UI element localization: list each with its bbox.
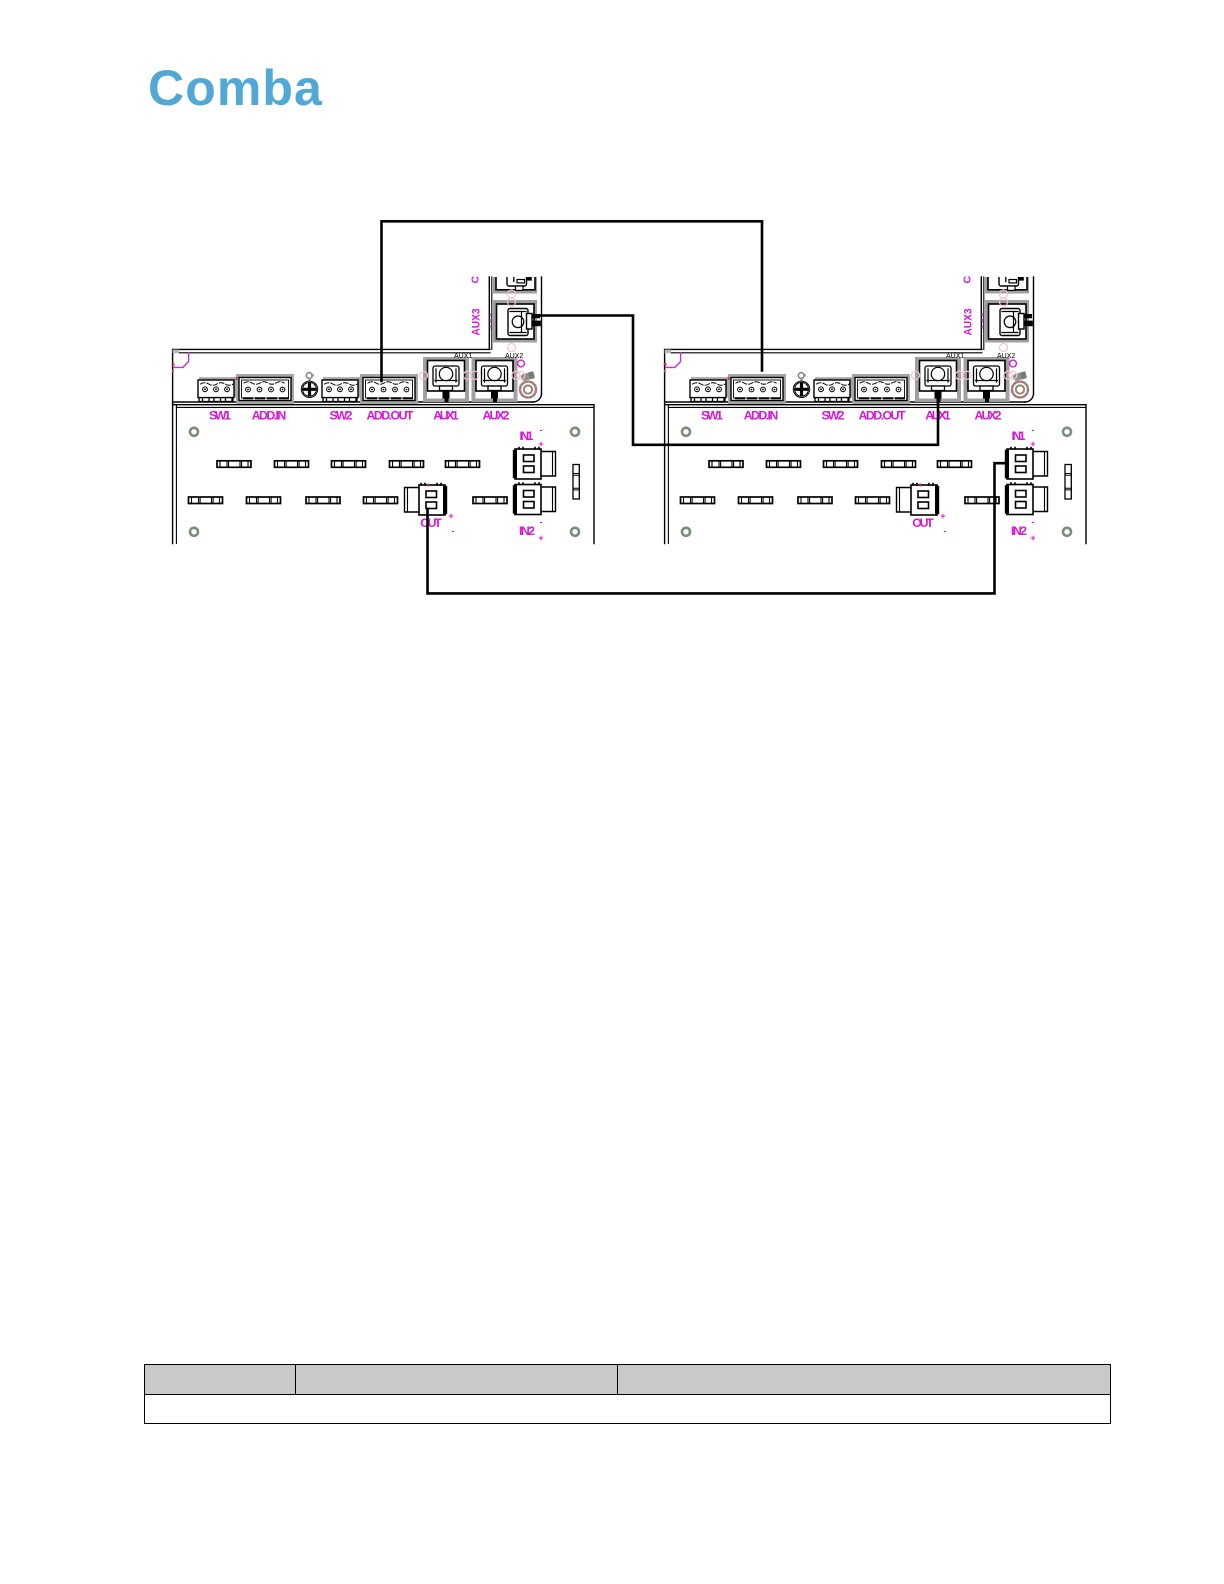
svg-text:AUX2: AUX2	[997, 353, 1015, 360]
svg-text:C: C	[470, 276, 482, 284]
lower panel outline	[665, 405, 1086, 544]
svg-text:ADD.IN: ADD.IN	[744, 409, 779, 423]
svg-text:AUX1: AUX1	[454, 353, 472, 360]
terminal ADD.OUT	[852, 374, 910, 404]
svg-text:ADD.IN: ADD.IN	[252, 409, 287, 423]
ground stud	[1012, 371, 1028, 397]
red tick	[728, 377, 730, 380]
svg-text:AUX2: AUX2	[505, 353, 523, 360]
svg-text:AUX3: AUX3	[471, 309, 483, 336]
svg-text:-: -	[944, 526, 947, 536]
red tick OUT	[920, 484, 922, 487]
fiber IN2	[1005, 483, 1048, 515]
svg-text:AUX2: AUX2	[483, 409, 510, 423]
svg-text:C: C	[962, 276, 974, 284]
svg-text:-: -	[452, 526, 455, 536]
jack AUX2	[472, 357, 518, 403]
red corner dot	[172, 363, 175, 366]
terminal SW1	[690, 377, 729, 401]
red tick	[236, 377, 238, 380]
wire ADD.OUT(L) to ADD.IN(R)	[382, 221, 763, 381]
Comba logo	[148, 59, 323, 117]
vent slots row1	[217, 461, 251, 468]
rotated AUX3 sub-panel edges	[489, 277, 541, 394]
red corner dot	[664, 363, 667, 366]
terminal SW1	[198, 377, 237, 401]
pink circles beside jacks	[912, 371, 920, 379]
vent slots row2	[681, 497, 715, 504]
svg-text:+: +	[940, 511, 945, 521]
vent slots row1	[709, 461, 743, 468]
vent slots row2	[189, 497, 223, 504]
green holes	[682, 428, 690, 436]
panel top-strip outline	[173, 349, 542, 543]
svg-text:SW1: SW1	[209, 409, 231, 423]
magenta circle	[1010, 360, 1017, 367]
bottom table	[144, 1364, 1111, 1424]
fiber IN2	[513, 483, 556, 515]
terminal SW2	[814, 377, 853, 401]
panel top-strip outline	[665, 349, 1034, 543]
jack AUX1	[915, 357, 961, 403]
svg-text:-: -	[540, 517, 543, 527]
plus minus marks	[448, 425, 543, 543]
svg-text:OUT: OUT	[912, 516, 934, 530]
magenta corner bracket	[666, 353, 681, 368]
terminal ADD.IN	[728, 374, 786, 404]
svg-text:SW1: SW1	[701, 409, 723, 423]
svg-text:-: -	[540, 425, 543, 435]
svg-text:IN1: IN1	[1012, 429, 1026, 443]
fiber OUT	[405, 484, 448, 516]
svg-text:ADD.OUT: ADD.OUT	[859, 409, 906, 423]
screw	[301, 373, 317, 398]
svg-text:+: +	[1030, 533, 1035, 543]
svg-text:SW2: SW2	[330, 409, 353, 423]
svg-text:AUX1: AUX1	[433, 409, 459, 423]
svg-text:AUX1: AUX1	[946, 353, 964, 360]
svg-text:+: +	[538, 533, 543, 543]
pink circles beside jacks	[420, 371, 428, 379]
terminal ADD.OUT	[360, 374, 418, 404]
hinge strip	[573, 465, 579, 500]
fiber IN1	[1005, 448, 1048, 480]
magenta connector labels	[209, 409, 535, 539]
fiber IN1	[513, 448, 556, 480]
svg-text:OUT: OUT	[420, 516, 442, 530]
terminal SW2	[322, 377, 361, 401]
jack AUX3 (rotated)	[985, 249, 1033, 343]
jack AUX1	[423, 357, 469, 403]
rotated AUX3 sub-panel edges	[981, 277, 1033, 394]
ground stud	[520, 371, 536, 397]
terminal ADD.IN	[236, 374, 294, 404]
svg-text:-: -	[1032, 517, 1035, 527]
wire AUX3(L) to AUX1(R)	[534, 316, 938, 445]
wire OUT(L) to IN1(R)	[428, 463, 1007, 593]
magenta connector labels	[701, 409, 1027, 539]
svg-text:+: +	[448, 511, 453, 521]
fiber OUT	[897, 484, 940, 516]
svg-text:IN1: IN1	[520, 429, 534, 443]
jack AUX2	[964, 357, 1010, 403]
svg-text:IN2: IN2	[519, 524, 535, 538]
svg-text:IN2: IN2	[1011, 524, 1027, 538]
svg-text:AUX2: AUX2	[975, 409, 1002, 423]
green holes	[190, 428, 198, 436]
pink circles rotated section	[1000, 290, 1008, 298]
pink circles rotated section	[508, 290, 516, 298]
svg-text:AUX3: AUX3	[963, 309, 975, 336]
plus minus marks	[940, 425, 1035, 543]
svg-text:-: -	[1032, 425, 1035, 435]
red tick OUT	[428, 484, 430, 487]
svg-text:ADD.OUT: ADD.OUT	[367, 409, 414, 423]
lower panel outline	[173, 405, 594, 544]
screw	[793, 373, 809, 398]
svg-text:SW2: SW2	[822, 409, 845, 423]
jack AUX3 (rotated)	[493, 249, 541, 343]
magenta circle	[518, 360, 525, 367]
magenta corner bracket	[174, 353, 189, 368]
hinge strip	[1065, 465, 1071, 500]
